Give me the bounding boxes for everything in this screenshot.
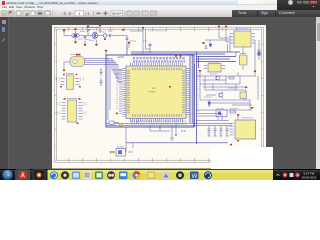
capacitor bank left of block [100, 68, 103, 86]
net label A= [181, 130, 186, 132]
right middle wiring mesh [196, 40, 258, 110]
IC U2 (top right) [232, 29, 254, 47]
red designators top-left cluster [72, 31, 102, 39]
junction dot [175, 134, 177, 136]
ground symbols top-left cluster [74, 38, 106, 45]
pin labels above U1 (two rows) [133, 58, 185, 61]
block boundary box [106, 55, 194, 127]
label smudge near C5 [130, 40, 136, 42]
wires into U3 [196, 114, 229, 121]
capacitor C3 [83, 37, 86, 38]
taskbar [0, 169, 320, 182]
label smudges top-left cluster [78, 25, 113, 41]
toolbar [0, 10, 320, 19]
resistor R6 [230, 111, 236, 113]
diode D3 vertical [208, 102, 211, 105]
menu bar [0, 5, 277, 11]
ground flag below X1 [63, 70, 65, 72]
power flags above U1 [175, 55, 182, 57]
small parts under U2 [205, 44, 208, 48]
connector J1 (vertical header) [57, 98, 87, 124]
wires top right cluster [205, 28, 259, 70]
sheet border frame [55, 27, 264, 162]
wire: stubs below U1 [116, 121, 176, 153]
label smudges capacitor bank [207, 132, 222, 134]
bus: horizontal top lines to right section [131, 52, 240, 62]
capacitor C5 top middle [126, 38, 129, 39]
title bar (Aero glass) [0, 0, 320, 5]
label smudges right middle [204, 74, 238, 109]
resistor R5 [229, 77, 234, 79]
svg-text:W: W [192, 174, 198, 180]
wire: X1 to bus box (4 lines) [64, 59, 118, 70]
window buttons [297, 1, 303, 5]
regulator U5 (small yellow) [206, 62, 224, 72]
IC U3 (bottom right yellow) [232, 114, 256, 141]
IC U4 (small vertical) [56, 73, 85, 89]
tools/sign/comment dark bar [232, 10, 320, 18]
red dot left of U3 [230, 144, 232, 146]
wire: vertical feeds inside block to U1 [108, 57, 122, 120]
connector X1 (yellow oval) [70, 54, 85, 67]
inverter symbol [87, 29, 90, 32]
IC U6 (small yellow square) [240, 92, 247, 99]
SCHEMATIC SVG (page + drawing) [0, 0, 320, 180]
connector P2 (bottom small) [110, 147, 133, 156]
capacitor C6 top middle [143, 41, 151, 46]
power flags right middle [199, 70, 256, 109]
capacitor C7 right edge [258, 50, 261, 55]
ground G5 below bus [170, 138, 174, 140]
oscillator X2 [216, 109, 227, 117]
IC U1 (main processor) [124, 64, 188, 120]
transistor Q4 (ring) [103, 34, 106, 37]
wire: top feeds into block [127, 29, 150, 55]
pin labels below U1 (two rows) [131, 122, 186, 124]
capacitor bank bottom right [207, 126, 228, 136]
page [52, 25, 266, 169]
power flag VCC top-left cluster [63, 25, 130, 44]
ferrite bead FB1 in block corner [108, 113, 122, 127]
white window corner bottom-right [211, 147, 273, 169]
crystal Y1 [72, 33, 80, 37]
svg-text:18-09-2015: 18-09-2015 [302, 175, 317, 179]
transistor Q1 [92, 32, 98, 40]
power flags top right [202, 26, 227, 44]
power flag on block corner [105, 50, 107, 52]
sheet header text [148, 30, 166, 32]
bus: vertical column right of U1 [190, 52, 199, 144]
power flag above vertical feed [142, 27, 144, 29]
net label VX (purple) [118, 56, 124, 58]
diode D2 right [209, 44, 212, 47]
right scrollbar [316, 17, 320, 169]
transistor Q2 [216, 76, 220, 81]
pin labels left of U1 [119, 69, 122, 114]
document area background [0, 17, 320, 169]
svg-text:GPM30: GPM30 [148, 92, 156, 94]
transistor Q3 [219, 92, 223, 98]
pdf icon in title [2, 1, 5, 5]
wire: top-left cluster rails [64, 28, 129, 56]
electrolytic capacitor CE1 [240, 53, 248, 65]
bus: bottom horizontal lines [106, 124, 232, 143]
left sidebar [0, 17, 9, 169]
capacitor C4 [109, 34, 110, 37]
pin labels right of U1 [197, 70, 199, 112]
